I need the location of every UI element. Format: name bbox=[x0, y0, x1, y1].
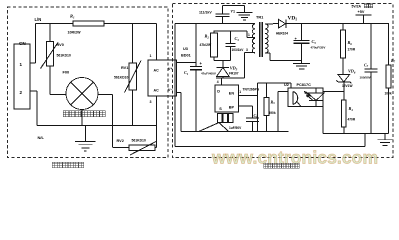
wire output terminal riser bbox=[363, 15, 365, 24]
wire RV2 left bbox=[113, 147, 129, 149]
svg-text:BP: BP bbox=[229, 106, 235, 110]
wire BP out bbox=[239, 105, 253, 107]
svg-text:S: S bbox=[219, 107, 222, 111]
opto LED stub top bbox=[315, 88, 317, 93]
resistor R2 body bbox=[211, 33, 218, 57]
rail primary ground bbox=[181, 131, 289, 133]
svg-text:C7: C7 bbox=[364, 63, 369, 69]
svg-text:R2: R2 bbox=[205, 34, 210, 40]
resistor R1 body bbox=[73, 21, 104, 26]
svg-text:47k/2W: 47k/2W bbox=[200, 43, 212, 47]
capacitor Y1 plates bbox=[216, 15, 230, 17]
resistor R3 stub top bbox=[266, 83, 268, 98]
svg-text:R1: R1 bbox=[70, 14, 75, 20]
wire D pin stub bbox=[220, 78, 222, 85]
wire to VD1 bbox=[273, 23, 279, 25]
opto LED stub bottom bbox=[315, 101, 317, 107]
wire drain bbox=[216, 77, 245, 79]
svg-text:D: D bbox=[217, 90, 220, 94]
svg-text:390k: 390k bbox=[269, 111, 276, 115]
connector CN box bbox=[14, 44, 30, 109]
zener VD6 bar bbox=[338, 81, 350, 83]
diode VD1 bar bbox=[285, 19, 287, 28]
transformer TR1 secondary winding bbox=[265, 24, 268, 53]
transformer TR1 core bbox=[259, 22, 261, 57]
capacitor Y1 stem bbox=[222, 5, 224, 14]
svg-text:R3: R3 bbox=[271, 100, 276, 106]
wire snubber bottom bbox=[214, 59, 231, 61]
ground G3 stem bbox=[301, 60, 303, 63]
wire right box left riser bbox=[174, 24, 176, 147]
wire drain riser to transformer bbox=[244, 53, 246, 78]
wire RV0 bottom bbox=[49, 66, 51, 95]
opto light arrow 2 bbox=[307, 95, 313, 100]
svg-text:R4: R4 bbox=[349, 106, 354, 112]
wire source tent left bbox=[199, 123, 219, 132]
opto phototransistor arc bbox=[293, 92, 298, 105]
IC source pin box 1 bbox=[218, 114, 223, 123]
svg-text:PC817C: PC817C bbox=[297, 83, 312, 87]
capacitor C6 plates bbox=[246, 117, 259, 119]
bridge rectifier U3 box bbox=[148, 60, 177, 96]
svg-text:V−: V− bbox=[168, 88, 173, 92]
wire BP drop bbox=[252, 106, 254, 118]
capacitor C5 riser bbox=[301, 24, 303, 41]
IC source pin box 2 bbox=[223, 114, 228, 123]
resistor R4 body bbox=[341, 100, 346, 127]
diode VD1 triangle bbox=[279, 19, 286, 28]
resistor R4 stub bottom bbox=[343, 127, 345, 134]
varistor RV0 slash bbox=[41, 43, 59, 69]
switching IC U1 box bbox=[215, 85, 239, 112]
resistor R3 body bbox=[264, 98, 269, 116]
svg-text:561KD10: 561KD10 bbox=[132, 139, 146, 143]
varistor RV0 body bbox=[47, 42, 54, 67]
varistor RV0 riser bbox=[49, 24, 51, 42]
svg-text:U2: U2 bbox=[284, 83, 289, 87]
ground G2 stem bbox=[243, 5, 245, 12]
resistor R7 riser bbox=[388, 24, 390, 65]
IC source pin box 3 bbox=[229, 114, 234, 123]
ground G1 stem bbox=[84, 126, 86, 142]
svg-text:V+: V+ bbox=[168, 67, 173, 71]
svg-text:561KD10: 561KD10 bbox=[114, 76, 128, 80]
svg-text:U3: U3 bbox=[183, 47, 188, 51]
ground G4 stem bbox=[384, 134, 386, 140]
wire RV1 bottom bbox=[132, 90, 134, 126]
wire V- drop bbox=[180, 93, 182, 132]
svg-text:VD5: VD5 bbox=[230, 66, 238, 72]
varistor RV1 riser bbox=[132, 24, 134, 63]
svg-text:470uF/35V: 470uF/35V bbox=[311, 46, 326, 50]
diode VD5 triangle bbox=[217, 68, 230, 77]
svg-text:100/50V: 100/50V bbox=[360, 75, 371, 79]
wire bridge pin3 drop bbox=[156, 96, 158, 148]
svg-text:CN: CN bbox=[19, 41, 26, 46]
svg-text:C1: C1 bbox=[184, 70, 189, 76]
label switching section caption bbox=[264, 163, 268, 168]
zener VD6 triangle bbox=[338, 74, 350, 82]
resistor R7 body bbox=[386, 65, 391, 88]
capacitor C3 stub bottom bbox=[230, 47, 232, 61]
resistor R4 stub top bbox=[343, 92, 345, 100]
wire primary pin1 stub bbox=[246, 31, 248, 38]
wire bridge pin1 bbox=[156, 24, 158, 60]
svg-text:3: 3 bbox=[150, 100, 152, 104]
svg-text:EN: EN bbox=[229, 92, 235, 96]
svg-text:VD6: VD6 bbox=[348, 69, 356, 75]
lightning-protection section dashed border bbox=[8, 7, 169, 158]
svg-text:AC: AC bbox=[154, 69, 160, 73]
wire source tent right bbox=[219, 123, 229, 132]
svg-text:103/1kV: 103/1kV bbox=[232, 48, 245, 52]
svg-text:10R/2W: 10R/2W bbox=[68, 31, 82, 35]
wire bus after R1 bbox=[104, 23, 157, 25]
gas discharge tube F00 circle bbox=[66, 78, 98, 110]
wire DC bus bbox=[175, 23, 255, 25]
wire snubber to VD5 bbox=[222, 60, 224, 67]
wire CN pin2 drop bbox=[36, 91, 38, 126]
resistor R2 stub bottom bbox=[213, 57, 215, 60]
resistor R6 body bbox=[341, 30, 346, 58]
svg-text:1: 1 bbox=[150, 54, 152, 58]
svg-text:5V/2A: 5V/2A bbox=[352, 5, 362, 9]
gas discharge tube F00 X bbox=[71, 82, 94, 105]
ground G4 bars bbox=[378, 139, 393, 141]
wire zener junction to opto bbox=[323, 91, 344, 93]
resistor R7 drop bbox=[388, 88, 390, 134]
wire R6 to VD6 bbox=[342, 58, 344, 74]
svg-text:RV0: RV0 bbox=[57, 43, 64, 47]
wire secondary bottom stub bbox=[266, 52, 271, 54]
wire opto TL pin bbox=[278, 90, 288, 92]
wire bridge V- out bbox=[177, 92, 182, 94]
opto LED bar bbox=[309, 100, 324, 102]
wire rail join riser bbox=[364, 134, 366, 147]
wire RV2 right bbox=[155, 147, 157, 149]
wire output bus bbox=[286, 23, 389, 25]
varistor RV1 slash bbox=[125, 61, 142, 93]
optocoupler U2 box bbox=[288, 88, 323, 107]
svg-text:1: 1 bbox=[239, 90, 241, 94]
diode VD5 stub bbox=[222, 77, 224, 79]
wire secondary bottom drop bbox=[269, 53, 271, 61]
wire opto emitter riser bbox=[277, 91, 279, 131]
svg-text:3: 3 bbox=[246, 48, 248, 52]
wire feedback vertical bbox=[257, 83, 259, 132]
wire secondary return bbox=[270, 59, 302, 61]
svg-text:1uF/50V: 1uF/50V bbox=[229, 126, 242, 130]
svg-text:170R: 170R bbox=[348, 48, 356, 52]
svg-text:BD01: BD01 bbox=[181, 54, 191, 58]
wire CN pin1 stub bbox=[30, 62, 35, 64]
ground G3 bars bbox=[293, 62, 310, 64]
capacitor C7 plates bbox=[365, 68, 378, 70]
svg-text:C6: C6 bbox=[254, 113, 259, 119]
svg-text:470R: 470R bbox=[348, 118, 356, 122]
opto light arrow 1 bbox=[305, 92, 311, 97]
wire primary pin3 stub bbox=[245, 52, 255, 54]
wire top bus left segment bbox=[35, 23, 73, 25]
wire opto collector top pin bbox=[290, 83, 292, 88]
wire secondary top stub bbox=[266, 23, 274, 25]
capacitor C5 plates bbox=[294, 40, 310, 42]
varistor RV1 body bbox=[129, 63, 137, 90]
svg-text:111/1kV: 111/1kV bbox=[199, 10, 212, 14]
label lightning section caption bbox=[52, 162, 57, 168]
rail secondary ground bbox=[323, 133, 389, 135]
resistor R6 riser bbox=[342, 24, 344, 30]
resistor R3 stub bottom bbox=[266, 116, 268, 132]
svg-text:4: 4 bbox=[217, 80, 219, 84]
capacitor C3 plates bbox=[226, 43, 236, 45]
wire feedback top bbox=[258, 82, 292, 84]
svg-text:AC: AC bbox=[154, 89, 160, 93]
svg-text:C5: C5 bbox=[312, 39, 317, 45]
opto LED triangle bbox=[308, 93, 324, 101]
wire F00 right bbox=[98, 94, 113, 96]
label ceramic gas discharge tube bbox=[63, 111, 69, 117]
capacitor C6 stem bbox=[252, 121, 254, 131]
varistor RV2 slash bbox=[130, 141, 157, 155]
svg-text:FR107: FR107 bbox=[229, 72, 239, 76]
svg-text:RV2: RV2 bbox=[117, 139, 124, 143]
output terminal bar bbox=[356, 14, 372, 16]
svg-text:L/N: L/N bbox=[35, 17, 42, 22]
wire VD6 drop bbox=[343, 82, 345, 92]
capacitor C5 stem bbox=[301, 43, 303, 60]
svg-text:HER104: HER104 bbox=[276, 32, 288, 36]
rail bottom return bbox=[175, 146, 365, 148]
svg-text:R6: R6 bbox=[348, 40, 353, 46]
ground G2 bars bbox=[236, 11, 252, 13]
wire CN pin1 riser bbox=[34, 24, 36, 63]
svg-text:N/L: N/L bbox=[38, 135, 45, 140]
capacitor Y1 riser bbox=[222, 16, 224, 23]
svg-text:47uF/400V: 47uF/400V bbox=[201, 72, 216, 76]
wire opto BR pin bbox=[322, 107, 324, 134]
svg-text:Y1: Y1 bbox=[231, 10, 236, 14]
svg-text:RV1: RV1 bbox=[121, 66, 128, 70]
wire bottom N wire bbox=[37, 125, 157, 127]
svg-text:F00: F00 bbox=[63, 70, 70, 75]
wire EN out bbox=[239, 95, 258, 97]
capacitor C1 stem bbox=[195, 70, 197, 132]
capacitor C1 plates bbox=[190, 65, 202, 67]
wire bridge V+ out bbox=[177, 62, 197, 64]
wire F00 bottom stub bbox=[81, 110, 83, 126]
capacitor C7 stem bbox=[370, 72, 372, 133]
wire drop to RV2 bbox=[112, 95, 114, 148]
wire CN pin2 stub bbox=[30, 90, 37, 92]
switching-power section dashed border bbox=[173, 4, 394, 158]
svg-text:C3: C3 bbox=[235, 36, 240, 42]
ground G1 bars bbox=[75, 141, 96, 143]
svg-text:1: 1 bbox=[248, 33, 250, 37]
diode VD5 bar bbox=[217, 66, 230, 68]
wire snubber top bbox=[214, 30, 248, 32]
wire Y1 to ground bbox=[223, 4, 245, 6]
svg-text:R7: R7 bbox=[391, 58, 396, 64]
capacitor C1 riser bbox=[195, 24, 197, 67]
resistor R2 stub top bbox=[213, 31, 215, 33]
svg-text:TR1: TR1 bbox=[256, 15, 264, 20]
svg-text:+5V: +5V bbox=[358, 10, 365, 14]
capacitor C7 riser bbox=[370, 24, 372, 69]
wire RV0 to F00 bbox=[50, 94, 66, 96]
capacitor C3 stub top bbox=[230, 31, 232, 44]
svg-text:561KD10: 561KD10 bbox=[57, 54, 71, 58]
varistor RV2 body bbox=[129, 145, 155, 151]
transformer TR1 primary winding bbox=[252, 24, 255, 53]
